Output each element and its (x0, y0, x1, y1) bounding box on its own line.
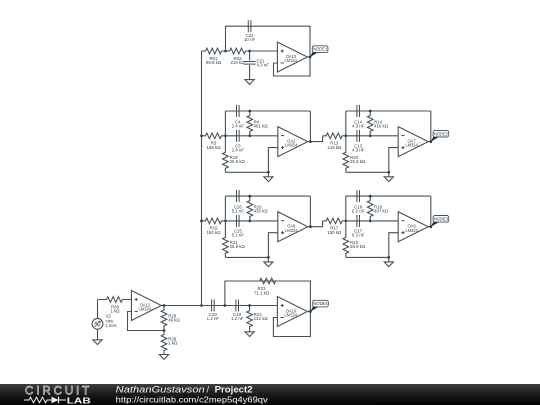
wire node-A riser OA8 (224, 196, 226, 221)
resistor R15 (202, 218, 226, 235)
svg-text:143 kΩ: 143 kΩ (327, 145, 342, 150)
svg-text:26.9 kΩ: 26.9 kΩ (350, 244, 366, 249)
ground OA9 stage (384, 257, 393, 266)
wire R23 feedback (225, 281, 311, 312)
svg-text:71.1 kΩ: 71.1 kΩ (254, 290, 270, 295)
wire node-A riser OA9 (345, 196, 347, 221)
op-amp OA7 (398, 127, 428, 157)
wire node-A to inverting input OA2 (225, 135, 277, 137)
capacitor C15 (232, 215, 245, 238)
wire non-inverting input OA9 (389, 233, 398, 258)
capacitor C18 (352, 190, 365, 214)
wire OA9 output riser (430, 196, 432, 227)
svg-text:LM324: LM324 (285, 313, 298, 318)
resistor R24 (247, 306, 269, 332)
flag NODE1 (310, 46, 328, 57)
capacitor C20 (207, 300, 220, 322)
wire OA13 feedback loop (274, 57, 311, 76)
node ground junction OA2 (267, 171, 270, 174)
logo CIRCUIT text (25, 385, 90, 397)
node ground junction OA9 (387, 256, 390, 259)
svg-text:150 kΩ: 150 kΩ (206, 230, 221, 235)
flag NODE4 (310, 300, 328, 311)
op-amp OA2 (278, 127, 308, 157)
svg-text:5.1 nF: 5.1 nF (232, 209, 245, 214)
wire OA2 output stub (308, 141, 311, 143)
resistor R3 (202, 133, 226, 150)
wire OA10 feedback loop (273, 312, 310, 337)
ground V2 (93, 340, 102, 345)
svg-text:219 kΩ: 219 kΩ (230, 60, 245, 65)
svg-text:NODE3: NODE3 (434, 216, 449, 221)
footer bar (0, 384, 540, 405)
wire OA12 feedback loop (128, 312, 165, 331)
capacitor C21 (244, 51, 270, 80)
wire top feedback OA2 (225, 110, 310, 112)
wire bottom to ground OA8 (225, 256, 268, 258)
capacitor C3 (232, 130, 245, 153)
wire row4 main (202, 305, 278, 307)
node R16 bottom (248, 220, 251, 223)
wire OA7 output stub (428, 141, 431, 143)
node stage-A junction OA2 (224, 134, 227, 137)
resistor R21 (223, 221, 246, 258)
wire top feedback OA7 (346, 110, 431, 112)
node stage-A junction OA7 (344, 134, 347, 137)
resistor R14 (367, 111, 388, 136)
wire OA12 output (161, 305, 201, 307)
resistor R4 (247, 111, 268, 136)
wire OA13 output stub (307, 56, 310, 58)
node OA12 output (163, 304, 166, 307)
op-amp OA12 (131, 291, 161, 321)
resistor R16 (247, 196, 268, 221)
svg-text:NathanGustavson: NathanGustavson (116, 385, 205, 395)
node R18 bottom (369, 220, 372, 223)
wire input bus vertical (201, 51, 203, 306)
wire row1 to op-amp (250, 50, 278, 52)
node R14 top (369, 110, 372, 113)
resistor R17 (323, 218, 346, 235)
node OA10 output (309, 310, 312, 313)
svg-text:LM324: LM324 (285, 58, 298, 63)
svg-text:4.3 nF: 4.3 nF (352, 124, 365, 129)
svg-text:1.2 nF: 1.2 nF (231, 316, 244, 321)
wire node-A to inverting input OA9 (346, 220, 398, 222)
svg-text:2.4 nF: 2.4 nF (232, 148, 245, 153)
resistor R18 (367, 196, 388, 221)
capacitor C13 (352, 130, 365, 153)
svg-text:416 kΩ: 416 kΩ (374, 124, 389, 129)
resistor R02 (226, 48, 250, 65)
resistor R20 (343, 136, 366, 173)
resistor R01 (202, 48, 226, 65)
capacitor C22 (244, 20, 256, 42)
capacitor C17 (352, 215, 365, 238)
svg-text:1.2 nF: 1.2 nF (207, 316, 220, 321)
wire OA7 output riser (430, 111, 432, 142)
node OA2 output (309, 140, 312, 143)
logo LAB text (67, 395, 91, 405)
wire non-inverting input OA7 (389, 148, 398, 173)
node R28 R29 junction (163, 329, 166, 332)
wire bottom to ground OA2 (225, 171, 268, 173)
op-amp OA10 (277, 297, 307, 327)
svg-text:99.8 kΩ: 99.8 kΩ (206, 60, 222, 65)
wire OA9 output stub (428, 226, 431, 228)
svg-text:http://circuitlab.com/c2mep5q4: http://circuitlab.com/c2mep5q4y69qv (116, 394, 269, 404)
svg-text:6.2 nF: 6.2 nF (352, 233, 365, 238)
node stage-A junction OA9 (344, 220, 347, 223)
resistor R28 (161, 306, 180, 331)
svg-text:LM324: LM324 (285, 228, 298, 233)
wire OA10 output stub (307, 311, 310, 313)
svg-text:Project2: Project2 (215, 385, 253, 395)
ground row1 (245, 80, 254, 85)
wire C22 feedback top (226, 26, 311, 57)
capacitor C19 (231, 300, 244, 322)
svg-text:158 kΩ: 158 kΩ (206, 145, 221, 150)
op-amp OA13 (277, 42, 307, 72)
node OA8 output (309, 225, 312, 228)
resistor R13 (323, 133, 346, 150)
svg-text:435 kΩ: 435 kΩ (254, 209, 269, 214)
svg-text:1 kHz: 1 kHz (106, 323, 117, 328)
ground OA7 stage (384, 172, 393, 181)
wire OA2 to R13 (310, 136, 322, 142)
node OA9 output (429, 225, 432, 228)
capacitor C16 (232, 190, 245, 214)
svg-text:NODE2: NODE2 (434, 131, 449, 136)
node stage-A junction OA8 (224, 220, 227, 223)
footer title text (116, 385, 253, 395)
svg-text:26.9 kΩ: 26.9 kΩ (230, 244, 246, 249)
op-amp OA8 (278, 212, 308, 242)
resistor R29 (161, 331, 178, 355)
ground OA8 stage (264, 257, 273, 266)
wire non-inverting input OA2 (268, 148, 277, 173)
wire bottom to ground OA7 (346, 171, 389, 173)
svg-text:4.3 nF: 4.3 nF (257, 63, 270, 68)
node OA13 output (309, 56, 312, 59)
node C20 C19 junction (224, 304, 227, 307)
capacitor C4 (232, 105, 245, 129)
svg-text:25.8 kΩ: 25.8 kΩ (350, 159, 366, 164)
svg-text:LM324: LM324 (139, 307, 152, 312)
node ground junction OA7 (387, 171, 390, 174)
ground R24 (245, 332, 254, 337)
wire V2 top (97, 300, 99, 319)
wire OA8 output stub (308, 226, 311, 228)
svg-text:6.2 nF: 6.2 nF (352, 209, 365, 214)
wire non-inverting input OA8 (268, 233, 277, 258)
svg-text:461 kΩ: 461 kΩ (254, 124, 269, 129)
node R16 top (248, 195, 251, 198)
wire node-A riser OA7 (345, 111, 347, 136)
svg-text:1 kΩ: 1 kΩ (168, 341, 178, 346)
svg-text:49 kΩ: 49 kΩ (168, 318, 180, 323)
resistor R23 (225, 278, 311, 295)
resistor R19 (223, 136, 246, 173)
wire node-A to inverting input OA8 (225, 220, 277, 222)
resistor R30 (98, 297, 132, 314)
wire node-A riser OA2 (224, 111, 226, 136)
svg-text:10 nF: 10 nF (244, 37, 256, 42)
capacitor C14 (352, 105, 365, 129)
wire OA8 output riser (309, 196, 311, 227)
svg-text:5.1 nF: 5.1 nF (232, 233, 245, 238)
node R14 bottom (369, 134, 372, 137)
node bus tap row4 (200, 304, 203, 307)
svg-text:NODE4: NODE4 (313, 301, 328, 306)
logo resistor-diode glyph (24, 397, 66, 404)
ground R29 (159, 355, 168, 360)
svg-text:LM324: LM324 (285, 143, 298, 148)
node ground junction OA8 (267, 256, 270, 259)
node row1 junction A (224, 50, 227, 53)
voltage source V2 (92, 314, 117, 330)
footer url text (116, 394, 269, 404)
wire top feedback OA8 (225, 195, 310, 197)
svg-text:407 kΩ: 407 kΩ (374, 209, 389, 214)
wire OA2 output riser (309, 111, 311, 142)
svg-text:142 kΩ: 142 kΩ (254, 316, 269, 321)
svg-text:4.3 nF: 4.3 nF (352, 148, 365, 153)
node R24 junction (248, 304, 251, 307)
wire top feedback OA9 (346, 195, 431, 197)
ground OA2 stage (264, 172, 273, 181)
wire OA8 to R17 (310, 221, 322, 227)
node R18 top (369, 195, 372, 198)
svg-text:LM324: LM324 (405, 228, 418, 233)
node R4 bottom (248, 134, 251, 137)
op-amp OA9 (398, 212, 428, 242)
svg-text:LM324: LM324 (405, 143, 418, 148)
node bus tap row3 (200, 220, 203, 223)
svg-text:NODE1: NODE1 (313, 47, 328, 52)
flag NODE2 (431, 130, 449, 141)
resistor R22 (343, 221, 366, 258)
node OA7 output (429, 140, 432, 143)
flag NODE3 (431, 216, 449, 227)
node bus tap row2 (200, 134, 203, 137)
svg-text:26.6 kΩ: 26.6 kΩ (230, 159, 246, 164)
wire node-A to inverting input OA7 (346, 135, 398, 137)
node row1 junction B (248, 50, 251, 53)
svg-text:1 kΩ: 1 kΩ (110, 309, 120, 314)
svg-text:LAB: LAB (67, 395, 91, 405)
wire V2 bottom (97, 329, 99, 340)
node R4 top (248, 110, 251, 113)
svg-text:2.4 nF: 2.4 nF (232, 124, 245, 129)
svg-text:150 kΩ: 150 kΩ (327, 230, 342, 235)
wire bottom to ground OA9 (346, 256, 389, 258)
